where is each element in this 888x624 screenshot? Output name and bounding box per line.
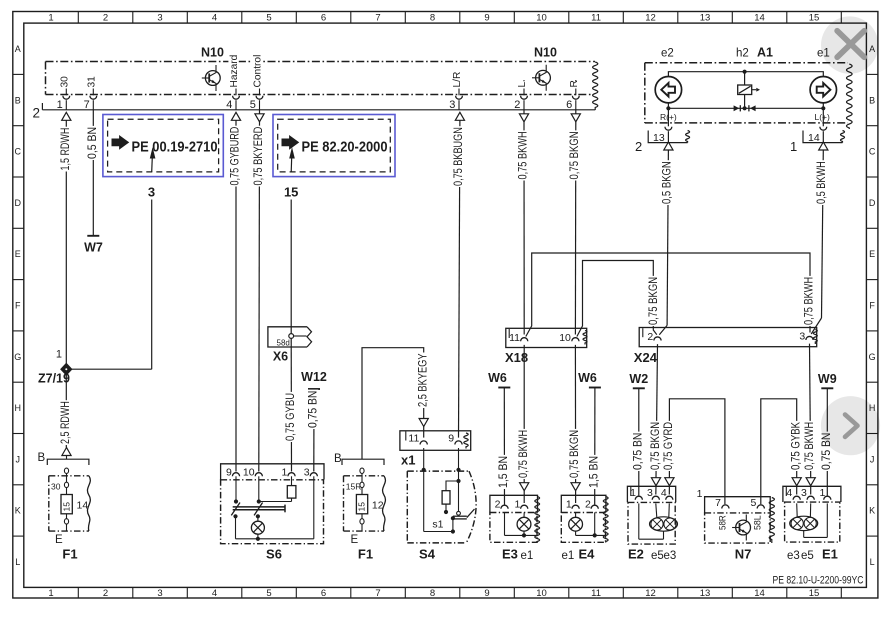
svg-text:4: 4 xyxy=(212,588,217,599)
N7 pin 7 (58R) xyxy=(715,497,729,530)
svg-text:10: 10 xyxy=(536,13,547,24)
svg-text:L/R: L/R xyxy=(452,72,463,88)
A1 internal top bus xyxy=(668,70,823,85)
transistor symbol inside N10 (left) xyxy=(202,65,220,91)
N10 pin 5 (Control) xyxy=(250,50,264,111)
X24 pin 3 xyxy=(799,331,813,343)
svg-text:e3: e3 xyxy=(664,550,677,562)
turn signal switch S4 (dash-dot box with curved side) xyxy=(407,471,476,561)
svg-text:5: 5 xyxy=(266,588,271,599)
svg-text:11: 11 xyxy=(591,13,601,24)
E1 pin 4 xyxy=(786,487,800,500)
E4 bulb xyxy=(569,512,606,537)
wire 0,75 BN from W2 to E2 pin1 xyxy=(630,388,644,495)
svg-text:N10: N10 xyxy=(534,46,557,60)
svg-text:4: 4 xyxy=(226,99,232,111)
svg-text:12: 12 xyxy=(372,500,384,512)
transistor symbol inside N10 (right) xyxy=(532,65,550,91)
reference box PE 00.19-2710 xyxy=(103,115,223,177)
A1 connector bracket 14 xyxy=(790,131,845,155)
svg-text:0,75 BKBUGN: 0,75 BKBUGN xyxy=(451,127,465,186)
svg-text:B: B xyxy=(334,453,342,465)
wire 0,75 BKYERD from N10 pin5 to S6 pin10 xyxy=(251,110,265,472)
E2 pin 1 xyxy=(630,487,642,500)
S6 pin 9 xyxy=(226,467,240,479)
svg-text:B: B xyxy=(869,95,875,105)
svg-text:1: 1 xyxy=(48,13,53,24)
wire 0,5 BKWH from A1 pin 14 to X24 pin 3 xyxy=(811,142,828,334)
x1 pin 11 xyxy=(408,433,427,445)
svg-text:E1: E1 xyxy=(822,547,838,562)
A1 pin R(+) xyxy=(660,108,677,142)
svg-text:1: 1 xyxy=(697,488,703,500)
svg-text:2: 2 xyxy=(103,13,108,24)
svg-text:12: 12 xyxy=(645,13,656,24)
svg-text:4: 4 xyxy=(212,13,217,24)
svg-text:e2: e2 xyxy=(661,48,674,60)
svg-text:9: 9 xyxy=(484,588,489,599)
svg-text:PE 82.20-2000: PE 82.20-2000 xyxy=(302,139,388,156)
arrow to terminal 3 of PE 00.19-2710 xyxy=(150,147,156,172)
svg-text:15: 15 xyxy=(61,502,71,512)
svg-text:B: B xyxy=(38,452,46,464)
wire 1,5 RDWH from N10 pin1 (terminal 30) xyxy=(58,112,72,364)
svg-text:E2: E2 xyxy=(628,547,644,562)
svg-text:5: 5 xyxy=(250,99,256,111)
svg-text:15: 15 xyxy=(357,502,367,512)
hazard warning switch S6 xyxy=(221,464,324,562)
svg-text:J: J xyxy=(870,454,875,464)
svg-text:0,75 GYBU: 0,75 GYBU xyxy=(283,393,297,441)
rear right lamp unit E1 xyxy=(783,486,841,562)
svg-text:15: 15 xyxy=(809,13,820,24)
N10 pin 6 (R) xyxy=(566,80,580,111)
wire 0,75 GYBU from X6 to S6 pin1 xyxy=(283,338,297,471)
svg-text:K: K xyxy=(15,506,21,516)
front right turn signal lamp E4 xyxy=(561,495,608,562)
svg-text:1: 1 xyxy=(57,99,63,111)
svg-text:1: 1 xyxy=(48,588,53,599)
S6 internal hazard contact (pin 9 pole) xyxy=(231,476,240,539)
svg-text:8: 8 xyxy=(430,588,435,599)
svg-text:L(+): L(+) xyxy=(815,112,831,122)
svg-text:31: 31 xyxy=(86,76,97,88)
front left turn signal lamp E3 xyxy=(490,495,540,562)
svg-text:L: L xyxy=(870,557,875,567)
wire 0,75 BN from W12 to S6 pin3 xyxy=(306,389,320,472)
svg-text:E: E xyxy=(869,249,875,259)
svg-text:2: 2 xyxy=(647,331,653,343)
arrow to terminal 15 of PE 82.20-2000 xyxy=(289,147,295,172)
svg-text:N7: N7 xyxy=(735,547,752,562)
svg-text:0,75 BKYERD: 0,75 BKYERD xyxy=(251,126,265,185)
E2 pin 3 xyxy=(647,487,659,500)
E2 pin 4 xyxy=(661,487,673,500)
svg-text:x1: x1 xyxy=(401,453,415,468)
svg-text:9: 9 xyxy=(448,433,454,445)
link wire X18 pin10 to X24 pin2 (0,75 BKGN) xyxy=(577,261,660,337)
S6 pin 1 xyxy=(281,467,295,479)
svg-text:30: 30 xyxy=(59,76,70,88)
svg-text:Control: Control xyxy=(253,55,264,88)
svg-text:3: 3 xyxy=(157,13,162,24)
svg-text:C: C xyxy=(869,147,876,157)
svg-text:11: 11 xyxy=(591,588,601,599)
svg-text:0,75 BKGN: 0,75 BKGN xyxy=(567,430,581,478)
svg-text:1: 1 xyxy=(790,139,797,154)
svg-text:11: 11 xyxy=(509,332,520,344)
A1 flasher element h2 xyxy=(738,85,760,95)
reference box PE 82.20-2000 xyxy=(273,115,395,177)
S6 wiper link bar xyxy=(233,505,285,513)
svg-text:e5: e5 xyxy=(801,550,814,562)
connector X24 xyxy=(634,328,818,366)
svg-text:B: B xyxy=(15,95,21,105)
svg-text:F1: F1 xyxy=(62,547,77,562)
wire 0,75 BKWH from N10 pin2 to X18 pin11 xyxy=(516,110,530,335)
svg-text:9: 9 xyxy=(226,467,232,479)
svg-text:13: 13 xyxy=(653,132,665,144)
svg-text:D: D xyxy=(14,198,21,208)
svg-text:A: A xyxy=(15,44,21,54)
svg-text:6: 6 xyxy=(321,13,326,24)
E3 bulb xyxy=(505,512,538,537)
svg-text:7: 7 xyxy=(84,99,90,111)
svg-text:3: 3 xyxy=(157,588,162,599)
svg-text:W7: W7 xyxy=(84,241,103,255)
wire 0,75 GYBURD from N10 pin4 to S6 pin9 xyxy=(228,112,242,471)
svg-text:G: G xyxy=(14,352,21,362)
wire terminal 15 from PE box through X6 to S6 pin1 xyxy=(284,183,299,334)
wire 1,5 BN from W6 to E4 pin2 xyxy=(586,388,600,505)
svg-text:2: 2 xyxy=(635,139,642,154)
N10 pin 3 (L/R) xyxy=(449,71,463,111)
x1 pin 9 xyxy=(448,433,462,445)
svg-text:1: 1 xyxy=(56,349,62,361)
svg-text:1: 1 xyxy=(819,487,825,499)
ground W6 (left) xyxy=(488,371,510,388)
S4 switch s1 xyxy=(432,509,474,532)
wire 0,75 GYRD from E2 pin4 to N7 pin7 xyxy=(661,399,725,505)
svg-text:X6: X6 xyxy=(273,350,288,364)
svg-text:14: 14 xyxy=(754,588,765,599)
svg-text:58L: 58L xyxy=(753,515,764,530)
svg-text:E: E xyxy=(351,534,359,546)
svg-text:A1: A1 xyxy=(757,46,773,60)
svg-text:L: L xyxy=(517,82,528,88)
svg-text:R: R xyxy=(569,80,580,87)
svg-text:E: E xyxy=(15,249,21,259)
svg-text:8: 8 xyxy=(430,13,435,24)
svg-text:0,75 GYRD: 0,75 GYRD xyxy=(661,422,675,470)
svg-text:Z7/19: Z7/19 xyxy=(38,372,70,386)
svg-text:C: C xyxy=(14,147,21,157)
svg-text:1: 1 xyxy=(630,487,636,499)
svg-text:0,75 GYBK: 0,75 GYBK xyxy=(788,422,802,470)
svg-text:G: G xyxy=(869,352,876,362)
svg-text:0,5 BN: 0,5 BN xyxy=(85,127,99,159)
ground W2 xyxy=(629,372,648,388)
svg-text:0,5 BKWH: 0,5 BKWH xyxy=(814,161,828,204)
control module N10 (dash-dot box with torn right edge) xyxy=(46,46,598,111)
svg-text:30: 30 xyxy=(51,482,61,492)
transistor symbol inside N7 xyxy=(732,515,750,541)
svg-text:h2: h2 xyxy=(736,48,749,60)
S6 illumination lamp xyxy=(251,521,264,534)
svg-text:S4: S4 xyxy=(419,547,436,562)
A1 left turn indicator lamp e2 xyxy=(655,77,681,103)
svg-text:1,5 BN: 1,5 BN xyxy=(496,456,510,488)
E3 pin 1 xyxy=(514,499,527,511)
svg-text:1,5 RDWH: 1,5 RDWH xyxy=(58,128,72,171)
S6 pin 3 xyxy=(304,467,318,479)
viewer close button xyxy=(821,16,878,73)
X18 pin 11 xyxy=(509,332,528,344)
svg-text:X24: X24 xyxy=(634,350,658,365)
link wire X18 pin11 to X24 pin3 (0,75 BKWH) xyxy=(526,253,816,337)
svg-text:58d: 58d xyxy=(277,338,290,347)
drawing number PE 82.10-U-2200-99YC xyxy=(773,575,864,587)
svg-text:1: 1 xyxy=(514,499,520,511)
svg-text:0,75 BKGN: 0,75 BKGN xyxy=(646,277,660,325)
svg-text:E3: E3 xyxy=(502,547,518,562)
S4 wire from pin 9 xyxy=(456,448,460,515)
trailer recognition relay N7 xyxy=(697,488,775,562)
A1 internal bottom bus with one-way elements xyxy=(666,95,825,112)
svg-text:4: 4 xyxy=(786,487,792,499)
svg-text:3: 3 xyxy=(799,331,805,343)
svg-text:0,75 BKGN: 0,75 BKGN xyxy=(648,422,662,470)
svg-text:0,75 BKWH: 0,75 BKWH xyxy=(802,277,816,325)
svg-text:15R: 15R xyxy=(346,482,362,492)
svg-text:2: 2 xyxy=(103,588,108,599)
svg-text:L: L xyxy=(15,557,20,567)
svg-text:7: 7 xyxy=(375,588,380,599)
ground W12 xyxy=(301,370,327,389)
wire 0,75 BKBUGN from N10 pin3 to x1 pin9 xyxy=(451,112,465,437)
svg-text:W6: W6 xyxy=(578,371,597,385)
svg-text:2: 2 xyxy=(495,499,501,511)
svg-text:7: 7 xyxy=(715,497,721,509)
fuse F1 left (terminal 30, 15A) xyxy=(38,452,91,562)
node Z7/19 (terminal block) xyxy=(38,349,71,386)
wire 0,75 BN from W9 to E1 pin1 xyxy=(819,388,833,495)
ground W6 (right) xyxy=(578,371,601,388)
rear left lamp unit E2 xyxy=(627,486,676,562)
wire 2,5 RDWH from Z7/19 to fuse F1 xyxy=(58,374,72,459)
svg-text:H: H xyxy=(14,403,21,413)
N10 pin 4 (Hazard) xyxy=(226,54,240,111)
wire 0,75 BKGN from X24 pin2 to E2 pin3 xyxy=(648,344,662,494)
svg-text:0,75 GYBURD: 0,75 GYBURD xyxy=(228,126,242,185)
svg-text:0,75 BN: 0,75 BN xyxy=(630,433,644,470)
svg-text:14: 14 xyxy=(754,13,765,24)
svg-text:0,75 BKWH: 0,75 BKWH xyxy=(516,131,530,179)
svg-text:1: 1 xyxy=(281,467,287,479)
svg-text:2: 2 xyxy=(514,99,520,111)
wire 0,75 BKGN from X18 pin10 to E4 pin1 xyxy=(567,345,581,503)
svg-text:0,75 BKGN: 0,75 BKGN xyxy=(567,131,581,179)
svg-text:2: 2 xyxy=(585,499,591,511)
ground W7 xyxy=(84,236,103,255)
svg-text:6: 6 xyxy=(321,588,326,599)
X18 pin 10 xyxy=(559,332,579,344)
svg-text:PE 00.19-2710: PE 00.19-2710 xyxy=(132,139,218,156)
wire 0,75 GYBK from N7 pin5 to E1 pin4 xyxy=(761,399,803,505)
E1 pin 1 xyxy=(819,487,830,500)
svg-text:13: 13 xyxy=(700,13,711,24)
svg-text:3: 3 xyxy=(449,99,455,111)
svg-text:N10: N10 xyxy=(201,46,224,60)
E4 pin 1 xyxy=(566,499,579,511)
E1 pin 3 xyxy=(801,487,814,500)
svg-text:W9: W9 xyxy=(818,372,837,386)
svg-text:0,75 BN: 0,75 BN xyxy=(306,391,320,428)
fuse F1 right (terminal 15R, 12) xyxy=(334,453,385,562)
svg-text:E: E xyxy=(55,534,63,546)
E1 twin filament bulb xyxy=(790,503,828,537)
svg-text:9: 9 xyxy=(484,13,489,24)
svg-text:14: 14 xyxy=(77,500,89,512)
svg-text:10: 10 xyxy=(536,588,547,599)
svg-text:W6: W6 xyxy=(488,371,507,385)
svg-text:E4: E4 xyxy=(579,547,596,562)
A1 connector bracket 13 xyxy=(635,131,690,155)
svg-text:J: J xyxy=(15,454,20,464)
svg-text:e3: e3 xyxy=(787,550,800,562)
wire 1,5 BN from W6 to E3 pin2 xyxy=(496,388,510,505)
svg-text:3: 3 xyxy=(304,467,310,479)
svg-text:W12: W12 xyxy=(301,370,327,384)
indicator cluster A1 (dash-dot box) xyxy=(645,46,852,130)
svg-text:F: F xyxy=(15,300,21,310)
connector X18 xyxy=(505,328,587,365)
svg-text:3: 3 xyxy=(801,487,807,499)
svg-text:e5: e5 xyxy=(651,550,664,562)
A1 right turn indicator lamp e1 xyxy=(810,77,836,103)
connector rail 2 under N10 xyxy=(32,103,595,121)
svg-text:7: 7 xyxy=(375,13,380,24)
svg-text:12: 12 xyxy=(645,588,656,599)
svg-text:0,75 BKWH: 0,75 BKWH xyxy=(516,430,530,478)
E4 pin 2 xyxy=(585,499,598,511)
svg-text:10: 10 xyxy=(559,332,571,344)
S6 resistor on pin 1 xyxy=(259,476,296,501)
svg-text:e1: e1 xyxy=(562,550,575,562)
wire terminal 3 from PE box to Z7/19 xyxy=(71,183,157,369)
svg-text:13: 13 xyxy=(700,588,711,599)
svg-text:D: D xyxy=(869,198,876,208)
ground W9 xyxy=(818,372,837,388)
svg-text:K: K xyxy=(869,506,875,516)
svg-text:58R: 58R xyxy=(717,515,728,530)
svg-text:Hazard: Hazard xyxy=(229,54,240,87)
E2 twin filament bulb xyxy=(639,503,678,539)
svg-text:1: 1 xyxy=(566,499,572,511)
svg-text:4: 4 xyxy=(661,487,667,499)
N7 pin 5 (58L) xyxy=(751,497,765,530)
N10 pin 2 (L) xyxy=(514,80,528,111)
wire 2,5 BKYEGY from fuse F1 right to turn signal switch xyxy=(362,348,429,460)
wire 0,5 BN from N10 pin7 to ground W7 xyxy=(85,110,99,236)
svg-text:W2: W2 xyxy=(629,372,648,386)
connector X6 (clamp 58d) xyxy=(268,327,312,364)
N10 pin 7 (31) xyxy=(84,76,98,111)
svg-text:11: 11 xyxy=(408,433,419,445)
svg-text:2,5 RDWH: 2,5 RDWH xyxy=(58,401,72,444)
svg-text:2: 2 xyxy=(32,106,40,121)
svg-text:s1: s1 xyxy=(432,519,443,531)
svg-text:10: 10 xyxy=(243,467,255,479)
svg-text:3: 3 xyxy=(647,487,653,499)
wire 0,75 BKGN from N10 pin6 to X18 pin10 xyxy=(567,110,581,335)
svg-text:14: 14 xyxy=(808,132,820,144)
connector x1 xyxy=(400,431,471,468)
wire 0,75 BKWH from X24 pin3 to E1 pin3 xyxy=(802,344,816,495)
svg-text:6: 6 xyxy=(566,99,572,111)
S6 internal contact and indicator lamp (pin 10 pole) xyxy=(254,476,263,521)
wire 0,5 BKGN from A1 pin 13 to X24 pin 2 xyxy=(659,142,673,335)
svg-text:5: 5 xyxy=(751,497,757,509)
svg-text:3: 3 xyxy=(148,185,155,200)
S4 wire from pin 11 xyxy=(422,448,455,534)
svg-text:15: 15 xyxy=(809,588,820,599)
svg-text:e1: e1 xyxy=(521,550,534,562)
E3 pin 2 xyxy=(495,499,508,511)
svg-text:0,5 BKGN: 0,5 BKGN xyxy=(659,161,673,204)
svg-text:0,75 BKWH: 0,75 BKWH xyxy=(802,422,816,470)
S6 pin 10 xyxy=(243,467,262,479)
S6 bottom rail to pin 3 xyxy=(236,476,314,541)
X24 pin 2 xyxy=(647,331,661,343)
viewer next chevron xyxy=(821,396,880,455)
S4 resistor xyxy=(442,481,458,514)
wire 0,75 BKWH from X18 pin11 to E3 pin1 xyxy=(516,345,530,503)
N10 pin 1 (30) xyxy=(57,76,71,111)
svg-text:F1: F1 xyxy=(358,547,373,562)
svg-text:5: 5 xyxy=(266,13,271,24)
svg-text:2,5 BKYEGY: 2,5 BKYEGY xyxy=(415,354,429,408)
svg-text:PE 82.10-U-2200-99YC: PE 82.10-U-2200-99YC xyxy=(773,575,864,587)
A1 pin L(+) xyxy=(815,108,831,142)
svg-text:S6: S6 xyxy=(266,547,282,562)
svg-text:F: F xyxy=(869,300,875,310)
svg-text:15: 15 xyxy=(284,185,298,200)
svg-text:1,5 BN: 1,5 BN xyxy=(586,456,600,488)
